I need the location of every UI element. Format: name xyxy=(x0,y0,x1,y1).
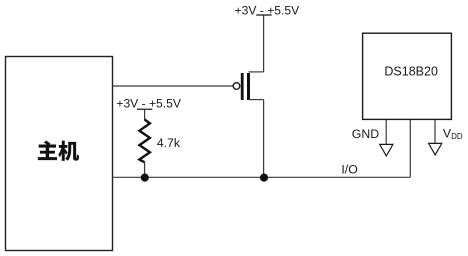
power bar (top rail) xyxy=(256,14,271,16)
svg-text:4.7k: 4.7k xyxy=(157,136,181,150)
svg-text:+3V - +5.5V: +3V - +5.5V xyxy=(116,96,181,110)
wire: GND pin xyxy=(385,119,387,144)
resistor R1 4.7k xyxy=(139,120,150,163)
junction dot (resistor/bus) xyxy=(141,174,149,182)
wire: VDD pin xyxy=(434,119,436,143)
wire: top rail to MOSFET source xyxy=(263,16,265,73)
ground arrow (VDD) xyxy=(429,143,442,155)
Q1 gate bubble xyxy=(233,83,240,90)
power bar (resistor rail) xyxy=(137,108,152,110)
Q1 top lead xyxy=(249,71,264,73)
Q1 bottom lead xyxy=(249,99,264,101)
svg-text:DS18B20: DS18B20 xyxy=(384,65,438,79)
label 主机 xyxy=(38,141,79,161)
host box 主机 xyxy=(6,57,113,251)
wire: resistor to bus xyxy=(144,162,146,177)
wire: DQ pin down to I/O bus xyxy=(409,119,411,177)
wire: main I/O bus xyxy=(113,176,411,178)
DS18B20 box U1 xyxy=(363,33,452,119)
Q1 gate bar xyxy=(241,73,244,100)
Q1 channel bar xyxy=(247,73,250,100)
transistor Q1 (PMOS) xyxy=(233,72,263,100)
svg-text:GND: GND xyxy=(352,127,379,141)
junction dot (MOSFET drain/bus) xyxy=(260,174,268,182)
svg-text:I/O: I/O xyxy=(341,163,357,177)
ground arrow (GND) xyxy=(380,144,393,156)
wire: MOSFET drain down to I/O bus xyxy=(263,100,265,178)
wire: rail to resistor xyxy=(144,110,146,120)
wire: gate wire from host to MOSFET xyxy=(113,85,234,87)
